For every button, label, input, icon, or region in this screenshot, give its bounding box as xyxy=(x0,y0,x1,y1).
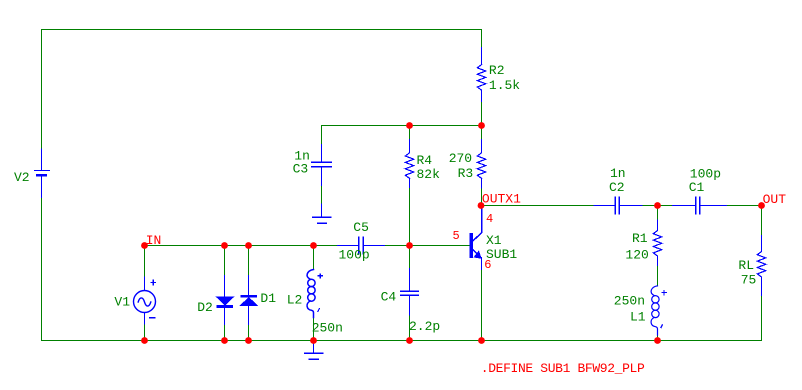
svg-text:C2: C2 xyxy=(609,180,625,195)
svg-text:2.2p: 2.2p xyxy=(409,319,440,334)
svg-text:4: 4 xyxy=(486,212,493,226)
capacitor C3 xyxy=(312,145,332,186)
svg-text:6: 6 xyxy=(484,258,491,272)
svg-text:D2: D2 xyxy=(197,300,213,315)
node R2 bottom junction dot xyxy=(478,122,485,129)
svg-text:C1: C1 xyxy=(689,180,705,195)
resistor R3 xyxy=(477,140,485,188)
diode D2 xyxy=(216,276,233,325)
node D1 top junction dot xyxy=(245,242,252,249)
capacitor C4 xyxy=(401,269,419,316)
resistor R1 xyxy=(653,220,661,265)
svg-text:82k: 82k xyxy=(417,167,441,182)
svg-text:R2: R2 xyxy=(489,63,505,78)
svg-text:1.5k: 1.5k xyxy=(489,78,520,93)
svg-text:L1: L1 xyxy=(630,310,646,325)
diode D1 xyxy=(240,276,257,325)
svg-text:.DEFINE SUB1 BFW92_PLP: .DEFINE SUB1 BFW92_PLP xyxy=(481,361,645,376)
svg-text:R3: R3 xyxy=(458,166,474,181)
svg-text:75: 75 xyxy=(741,273,757,288)
svg-text:X1: X1 xyxy=(486,233,502,248)
svg-text:L2: L2 xyxy=(287,292,303,307)
capacitor C5 xyxy=(338,237,385,254)
node L1 bottom junction dot xyxy=(654,337,661,344)
svg-text:IN: IN xyxy=(146,233,162,248)
inductor L1 xyxy=(651,286,666,335)
node D2 bottom junction dot xyxy=(221,337,228,344)
svg-text:R1: R1 xyxy=(632,231,648,246)
svg-text:D1: D1 xyxy=(260,291,276,306)
svg-text:C4: C4 xyxy=(381,289,397,304)
wire C2 to node xyxy=(642,205,673,207)
wire D2 top stub xyxy=(224,246,226,276)
svg-text:250n: 250n xyxy=(312,321,343,336)
svg-text:C5: C5 xyxy=(353,220,369,235)
node OUTX1 junction dot xyxy=(478,202,485,209)
wire left rail lower xyxy=(41,198,43,341)
wire C3 to ground xyxy=(321,186,323,204)
wire C1 to OUT xyxy=(727,205,762,207)
node IN junction dot xyxy=(141,242,148,249)
svg-text:270: 270 xyxy=(449,151,472,166)
svg-text:RL: RL xyxy=(738,258,754,273)
wire R3 to OUTX1 xyxy=(481,188,483,206)
svg-text:C3: C3 xyxy=(293,162,309,177)
wire R2 bottom stub xyxy=(481,102,483,126)
svg-text:120: 120 xyxy=(625,247,648,262)
wire bottom rail xyxy=(42,340,762,342)
wire C3 top stub xyxy=(321,126,323,145)
wire R4 top stub xyxy=(409,126,411,140)
transistor X1 xyxy=(470,206,482,270)
wire D1 bottom stub xyxy=(248,325,250,341)
wire top rail xyxy=(42,29,482,31)
node V1 bottom junction dot xyxy=(141,337,148,344)
svg-text:5: 5 xyxy=(453,229,460,243)
node C2 R1 junction dot xyxy=(654,202,661,209)
resistor RL xyxy=(757,236,765,296)
svg-text:OUT: OUT xyxy=(763,192,787,207)
wire left rail upper xyxy=(41,30,43,150)
wire R1 to L1 xyxy=(657,265,659,286)
svg-text:250n: 250n xyxy=(614,294,645,309)
node R4 top junction dot xyxy=(406,122,413,129)
wire IN to C5 xyxy=(145,245,338,247)
wire C4 bottom stub xyxy=(409,315,411,341)
wire R4 to C4 xyxy=(409,188,411,269)
node C4 bottom junction dot xyxy=(406,337,413,344)
svg-text:1n: 1n xyxy=(610,166,626,181)
source V1 xyxy=(134,277,156,324)
svg-text:R4: R4 xyxy=(417,153,433,168)
ground below C3 xyxy=(313,204,331,223)
node L2 top junction dot xyxy=(310,242,317,249)
wire L2 bottom stub xyxy=(313,318,315,341)
svg-text:V2: V2 xyxy=(14,170,30,185)
node OUT junction dot xyxy=(758,202,765,209)
wire V1 bottom stub xyxy=(144,324,146,341)
inductor L2 xyxy=(307,270,322,318)
node base junction dot xyxy=(406,242,413,249)
node D1 bottom junction dot xyxy=(245,337,252,344)
wire emitter to bottom rail xyxy=(481,270,483,341)
capacitor C2 xyxy=(594,197,642,214)
svg-text:OUTX1: OUTX1 xyxy=(482,191,521,206)
wire D2 bottom stub xyxy=(224,325,226,341)
wire V1 top stub xyxy=(144,246,146,278)
wire D1 top stub xyxy=(248,246,250,276)
wire L2 top stub xyxy=(313,246,315,270)
node L2 bottom junction dot xyxy=(310,337,317,344)
wire L1 bottom stub xyxy=(657,335,659,341)
ground below L2 xyxy=(305,342,323,360)
svg-text:100p: 100p xyxy=(339,247,370,262)
node emitter bottom junction dot xyxy=(478,337,485,344)
capacitor C1 xyxy=(673,197,727,214)
svg-text:V1: V1 xyxy=(114,295,130,310)
wire C3 rail horizontal xyxy=(322,125,482,127)
resistor R4 xyxy=(405,140,413,188)
wire RL bottom stub xyxy=(761,296,763,341)
wire R3 top stub xyxy=(481,126,483,140)
resistor R2 xyxy=(477,48,485,102)
battery V2 xyxy=(35,149,50,198)
wire OUT to RL xyxy=(761,206,763,236)
wire OUTX1 to C2 xyxy=(482,205,595,207)
wire R2 top stub xyxy=(481,30,483,48)
wire C5 to base xyxy=(385,245,470,247)
node D2 top junction dot xyxy=(221,242,228,249)
wire R1 top stub xyxy=(657,206,659,221)
